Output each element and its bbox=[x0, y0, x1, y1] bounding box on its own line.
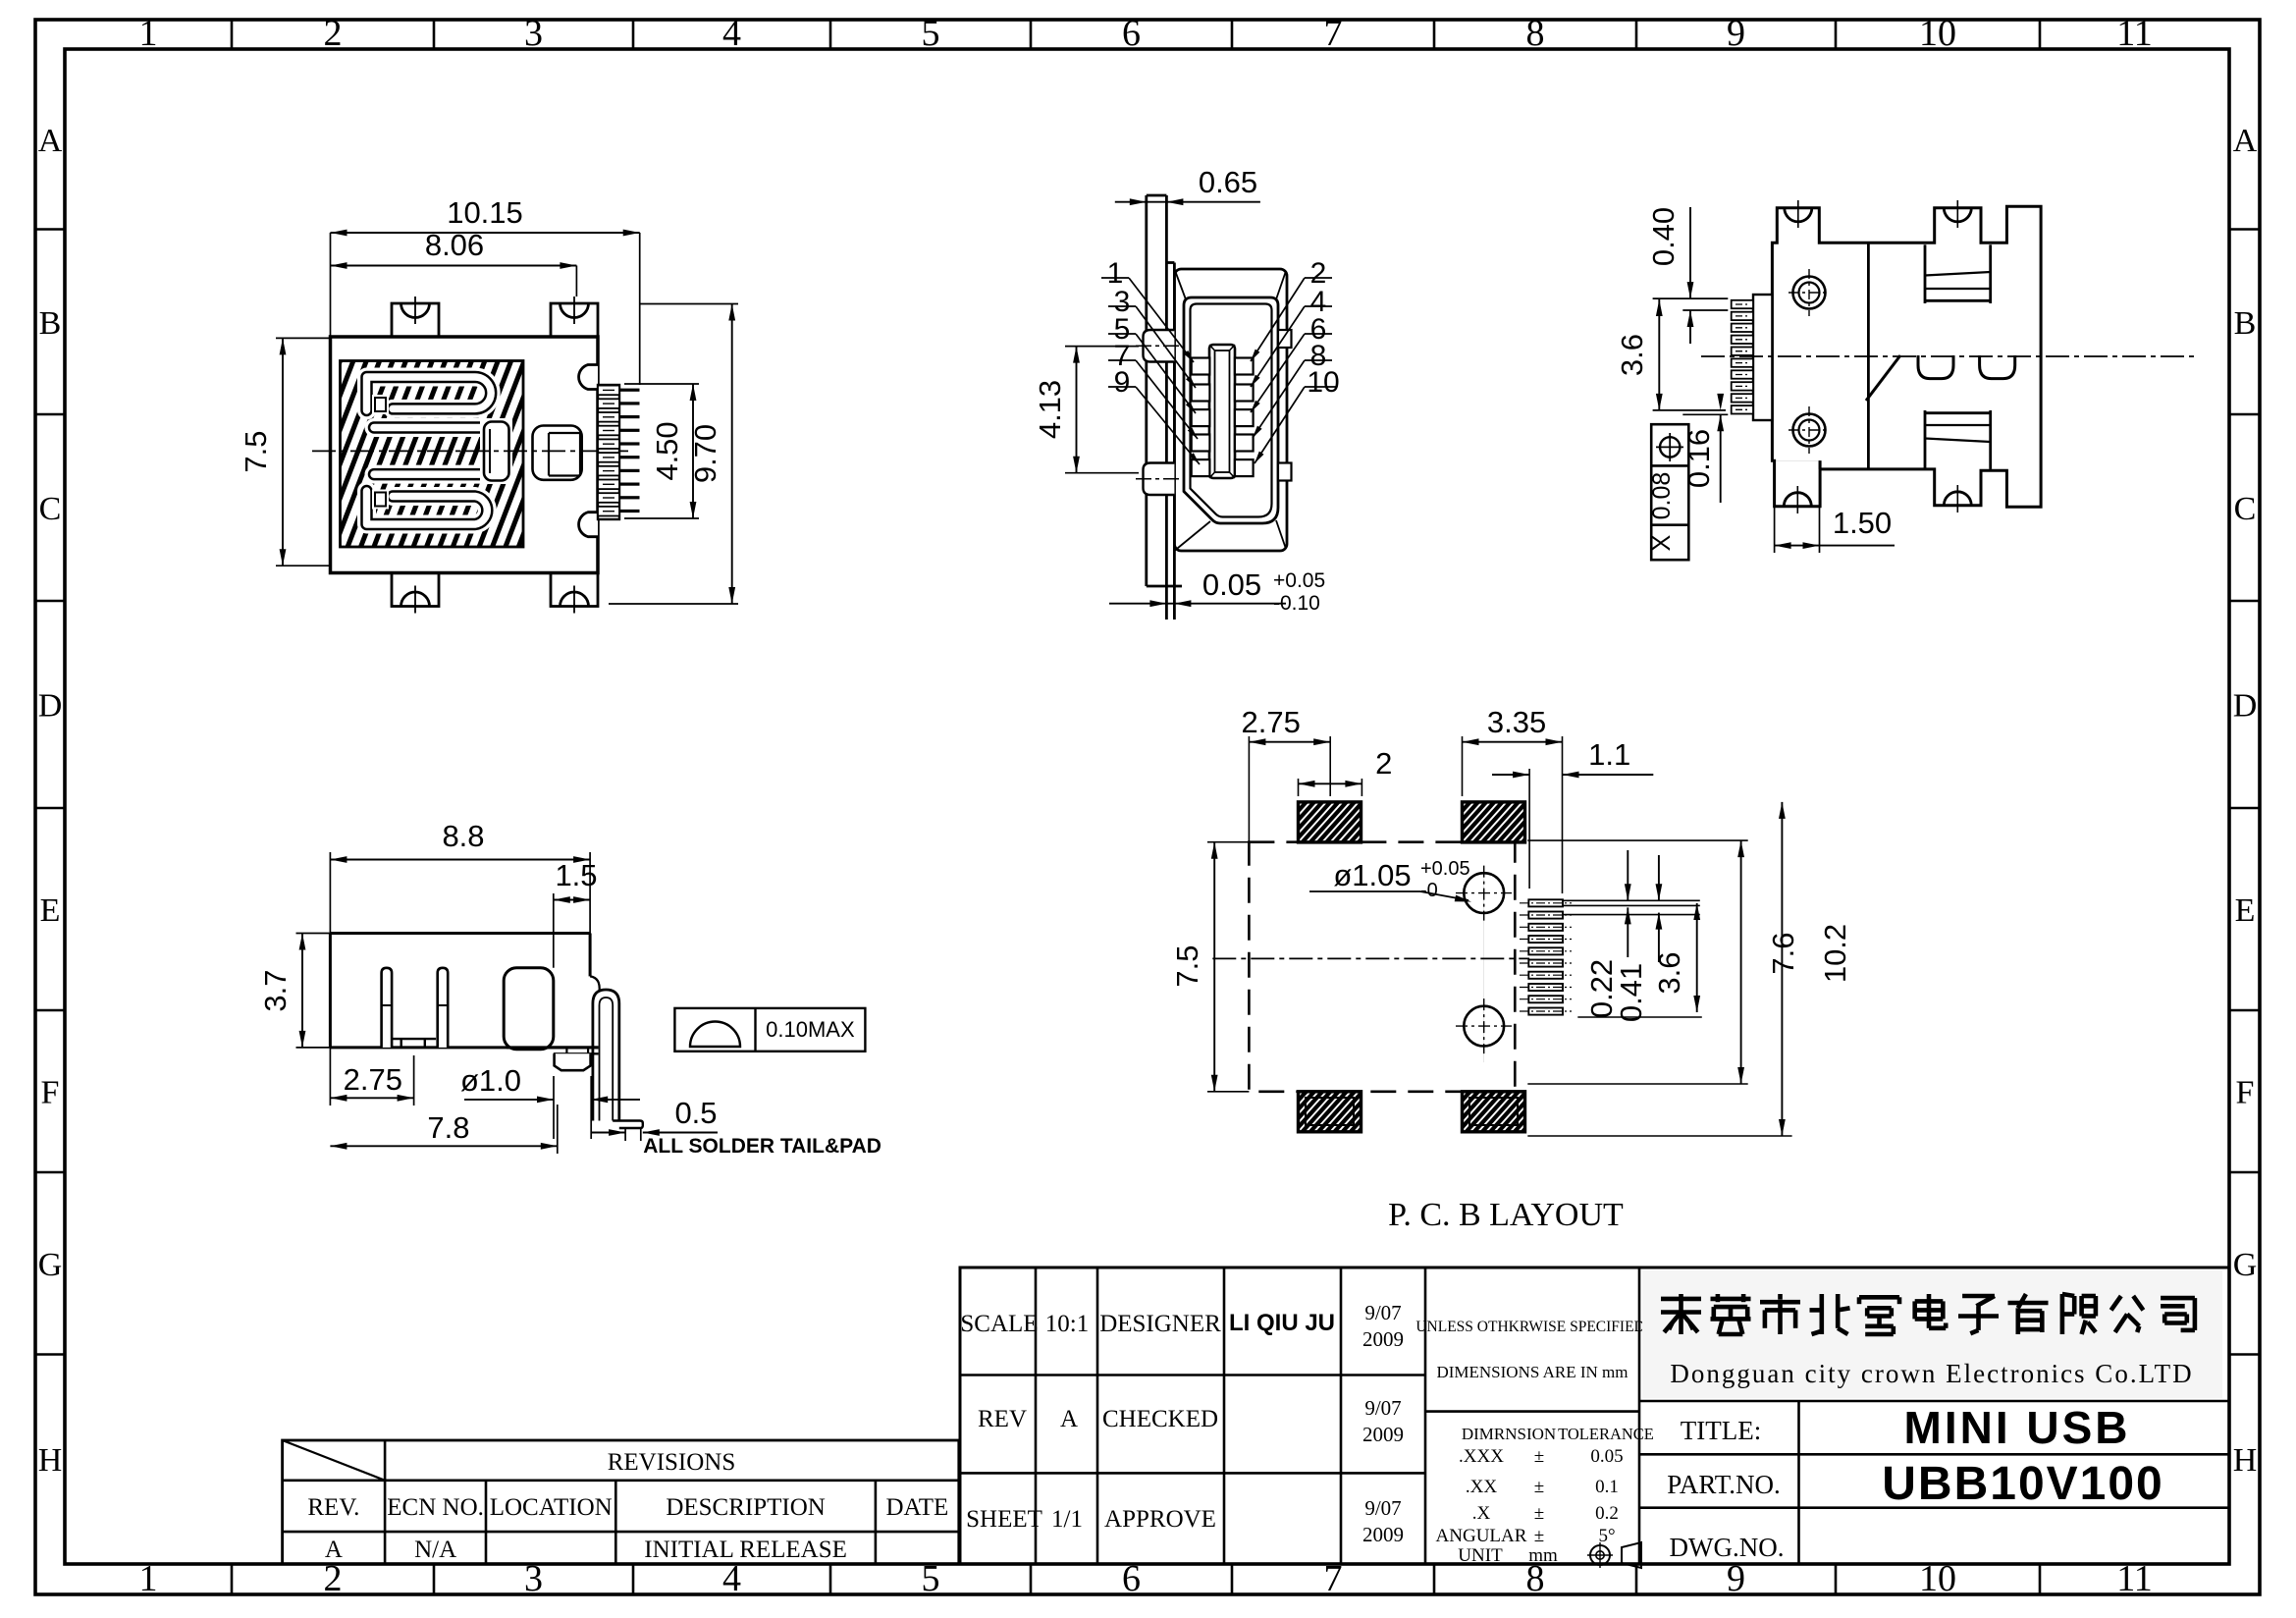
svg-text:P. C. B LAYOUT: P. C. B LAYOUT bbox=[1388, 1197, 1624, 1233]
svg-text:5°: 5° bbox=[1598, 1526, 1615, 1546]
svg-text:A: A bbox=[1060, 1406, 1078, 1432]
svg-text:UBB10V100: UBB10V100 bbox=[1882, 1458, 2163, 1510]
svg-text:8.8: 8.8 bbox=[442, 819, 484, 853]
svg-text:UNLESS OTHKRWISE SPECIFIED.: UNLESS OTHKRWISE SPECIFIED. bbox=[1415, 1319, 1648, 1335]
svg-text:2.75: 2.75 bbox=[344, 1062, 402, 1097]
svg-text:ø1.0: ø1.0 bbox=[460, 1063, 521, 1098]
svg-text:1: 1 bbox=[139, 13, 158, 54]
svg-text:INITIAL RELEASE: INITIAL RELEASE bbox=[644, 1537, 847, 1563]
svg-text:A: A bbox=[325, 1537, 343, 1563]
svg-text:2009: 2009 bbox=[1362, 1327, 1404, 1351]
svg-text:9: 9 bbox=[1727, 13, 1745, 54]
svg-text:X: X bbox=[1648, 534, 1676, 551]
svg-text:3.6: 3.6 bbox=[1615, 334, 1649, 376]
svg-text:4: 4 bbox=[722, 13, 741, 54]
svg-text:9/07: 9/07 bbox=[1364, 1396, 1401, 1420]
svg-text:ANGULAR: ANGULAR bbox=[1436, 1526, 1527, 1546]
svg-text:±: ± bbox=[1534, 1477, 1544, 1497]
svg-text:DATE: DATE bbox=[885, 1494, 948, 1521]
svg-text:7.8: 7.8 bbox=[427, 1110, 469, 1145]
svg-text:3.7: 3.7 bbox=[258, 969, 293, 1011]
svg-text:1.1: 1.1 bbox=[1588, 737, 1630, 772]
svg-text:10: 10 bbox=[1307, 366, 1339, 399]
svg-text:3.6: 3.6 bbox=[1652, 951, 1686, 994]
svg-text:SHEET: SHEET bbox=[966, 1506, 1042, 1533]
svg-text:0.05: 0.05 bbox=[1202, 567, 1261, 602]
svg-text:ø1.05: ø1.05 bbox=[1333, 858, 1411, 892]
svg-text:F: F bbox=[41, 1075, 60, 1111]
svg-text:.XXX: .XXX bbox=[1459, 1446, 1504, 1467]
svg-text:2: 2 bbox=[324, 13, 343, 54]
svg-text:2: 2 bbox=[1375, 746, 1392, 781]
svg-text:9.70: 9.70 bbox=[688, 424, 722, 483]
svg-text:UNIT: UNIT bbox=[1458, 1545, 1503, 1566]
svg-text:DESIGNER: DESIGNER bbox=[1099, 1311, 1221, 1337]
svg-text:7.5: 7.5 bbox=[239, 430, 273, 472]
svg-text:PART.NO.: PART.NO. bbox=[1667, 1470, 1780, 1499]
svg-text:C: C bbox=[39, 491, 62, 527]
svg-text:DIMENSIONS ARE IN mm: DIMENSIONS ARE IN mm bbox=[1436, 1363, 1628, 1381]
svg-text:2009: 2009 bbox=[1362, 1423, 1404, 1446]
svg-text:3: 3 bbox=[524, 13, 543, 54]
svg-text:7: 7 bbox=[1324, 13, 1343, 54]
svg-text:DWG.NO.: DWG.NO. bbox=[1670, 1533, 1785, 1562]
svg-text:11: 11 bbox=[2116, 13, 2153, 54]
svg-text:0.41: 0.41 bbox=[1614, 963, 1648, 1022]
svg-text:0.05: 0.05 bbox=[1590, 1446, 1623, 1467]
svg-text:1: 1 bbox=[139, 1558, 158, 1599]
svg-text:B: B bbox=[39, 305, 62, 342]
svg-text:D: D bbox=[38, 688, 63, 725]
svg-text:±: ± bbox=[1534, 1446, 1544, 1467]
svg-text:0.08: 0.08 bbox=[1648, 472, 1676, 520]
svg-text:0.10MAX: 0.10MAX bbox=[766, 1017, 855, 1042]
svg-text:±: ± bbox=[1534, 1503, 1544, 1524]
svg-text:G: G bbox=[2233, 1247, 2258, 1283]
svg-text:DESCRIPTION: DESCRIPTION bbox=[666, 1494, 826, 1521]
svg-text:10.2: 10.2 bbox=[1818, 924, 1852, 983]
svg-text:-0.10: -0.10 bbox=[1273, 592, 1320, 615]
svg-text:+0.05: +0.05 bbox=[1273, 569, 1325, 592]
svg-text:9/07: 9/07 bbox=[1364, 1301, 1401, 1324]
svg-text:0.1: 0.1 bbox=[1595, 1477, 1619, 1497]
svg-text:SCALE: SCALE bbox=[960, 1311, 1038, 1337]
svg-text:.XX: .XX bbox=[1466, 1477, 1497, 1497]
svg-text:2.75: 2.75 bbox=[1242, 705, 1301, 739]
svg-text:0.2: 0.2 bbox=[1595, 1503, 1619, 1524]
svg-text:8: 8 bbox=[1526, 13, 1545, 54]
svg-text:7.6: 7.6 bbox=[1766, 932, 1800, 974]
svg-text:mm: mm bbox=[1528, 1545, 1558, 1566]
svg-text:10:1: 10:1 bbox=[1045, 1311, 1089, 1337]
svg-text:1/1: 1/1 bbox=[1051, 1506, 1083, 1533]
svg-text:H: H bbox=[2233, 1442, 2258, 1479]
svg-text:A: A bbox=[38, 123, 63, 159]
svg-text:REV.: REV. bbox=[307, 1494, 359, 1521]
svg-text:8.06: 8.06 bbox=[425, 228, 484, 262]
svg-text:REVISIONS: REVISIONS bbox=[608, 1449, 736, 1476]
svg-text:+0.05: +0.05 bbox=[1420, 858, 1470, 880]
svg-text:Dongguan city crown Electronic: Dongguan city crown Electronics Co.LTD bbox=[1670, 1359, 2193, 1388]
svg-text:APPROVE: APPROVE bbox=[1104, 1506, 1216, 1533]
svg-text:ALL SOLDER TAIL&PAD: ALL SOLDER TAIL&PAD bbox=[643, 1135, 881, 1158]
svg-text:±: ± bbox=[1534, 1526, 1544, 1546]
svg-text:A: A bbox=[2233, 123, 2258, 159]
svg-text:0.40: 0.40 bbox=[1646, 207, 1681, 266]
svg-text:MINI USB: MINI USB bbox=[1904, 1402, 2131, 1453]
svg-text:4.13: 4.13 bbox=[1033, 380, 1067, 439]
svg-text:.X: .X bbox=[1472, 1503, 1491, 1524]
svg-text:6: 6 bbox=[1122, 13, 1141, 54]
svg-text:LI QIU JU: LI QIU JU bbox=[1229, 1310, 1335, 1336]
svg-text:DIMRNSION: DIMRNSION bbox=[1462, 1425, 1556, 1443]
svg-text:TOLERANCE: TOLERANCE bbox=[1558, 1425, 1654, 1443]
svg-text:E: E bbox=[40, 892, 61, 929]
svg-text:CHECKED: CHECKED bbox=[1102, 1406, 1218, 1432]
svg-text:D: D bbox=[2233, 688, 2258, 725]
svg-text:9/07: 9/07 bbox=[1364, 1496, 1401, 1520]
svg-text:1.5: 1.5 bbox=[555, 858, 597, 892]
svg-text:7.5: 7.5 bbox=[1170, 944, 1204, 987]
svg-text:F: F bbox=[2236, 1075, 2255, 1111]
svg-text:ECN NO.: ECN NO. bbox=[387, 1494, 484, 1521]
svg-text:10.15: 10.15 bbox=[447, 195, 523, 230]
svg-text:2009: 2009 bbox=[1362, 1523, 1404, 1546]
svg-text:C: C bbox=[2234, 491, 2257, 527]
svg-text:5: 5 bbox=[922, 13, 940, 54]
svg-text:REV: REV bbox=[978, 1406, 1027, 1432]
svg-text:TITLE:: TITLE: bbox=[1681, 1416, 1761, 1445]
svg-text:G: G bbox=[38, 1247, 63, 1283]
svg-text:E: E bbox=[2235, 892, 2256, 929]
svg-text:H: H bbox=[38, 1442, 63, 1479]
svg-text:4.50: 4.50 bbox=[650, 421, 684, 480]
svg-text:-0: -0 bbox=[1420, 880, 1438, 901]
svg-text:B: B bbox=[2234, 305, 2257, 342]
svg-text:0.5: 0.5 bbox=[674, 1096, 717, 1130]
svg-text:10: 10 bbox=[1919, 13, 1956, 54]
svg-text:LOCATION: LOCATION bbox=[490, 1494, 613, 1521]
svg-text:0.65: 0.65 bbox=[1199, 165, 1257, 199]
svg-text:9: 9 bbox=[1114, 366, 1131, 399]
svg-text:N/A: N/A bbox=[414, 1537, 456, 1563]
svg-text:3.35: 3.35 bbox=[1487, 705, 1546, 739]
svg-text:1.50: 1.50 bbox=[1833, 506, 1892, 540]
